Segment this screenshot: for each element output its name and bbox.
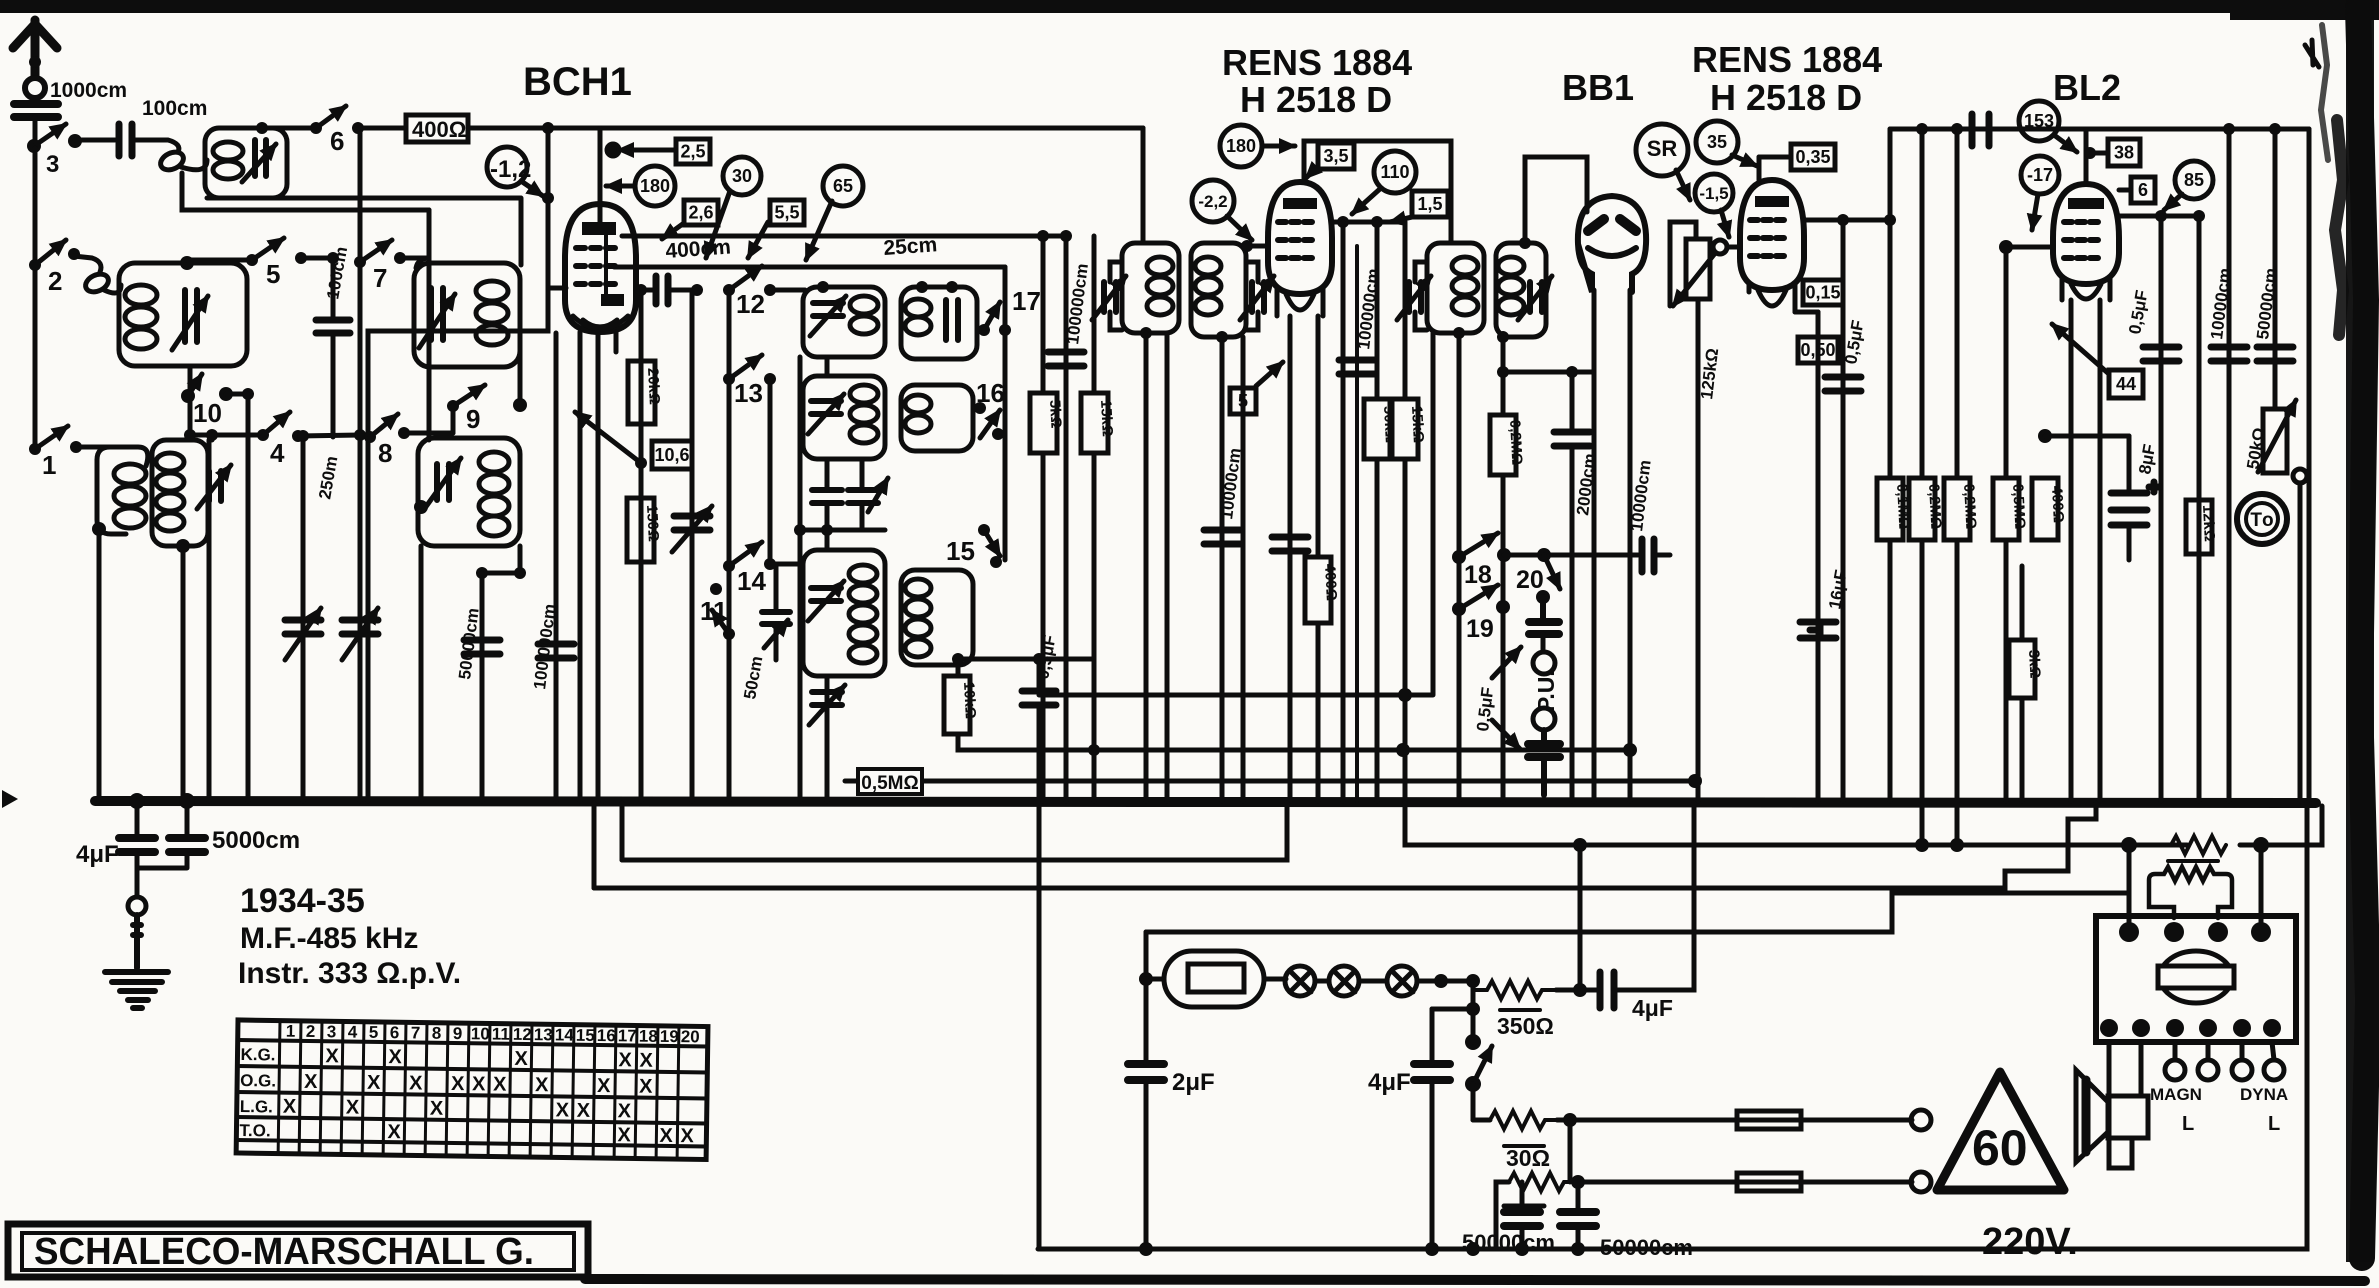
cap 50000cm c [1504, 1212, 1540, 1226]
table crosses KG [282, 1045, 695, 1148]
wire sw6 to R 400ohm [358, 126, 406, 131]
switch S16 [974, 378, 1005, 440]
trimmer C2 [185, 290, 197, 342]
coil L1 [213, 142, 243, 160]
wire trimmerB down [207, 501, 212, 801]
wire box2 bottom drop [190, 366, 212, 440]
loop resistor [2149, 867, 2232, 918]
wire pot 50k terminal down [2298, 483, 2303, 801]
svg-text:50000cm: 50000cm [455, 607, 483, 681]
tube RENS1884 b anode plate [1755, 196, 1789, 207]
antenna symbol [13, 20, 57, 92]
tube RENS1884 a grids [1278, 222, 1312, 258]
wire right edge col [2307, 129, 2312, 801]
wire box2 top right [187, 258, 252, 263]
wire PU row to pot col [1654, 553, 1670, 558]
wire 400ohm to IF line [468, 126, 1143, 131]
tuning cap gang2 [342, 620, 378, 634]
svg-text:X: X [597, 1075, 611, 1097]
svg-text:50cm: 50cm [740, 655, 766, 701]
coil L2 [125, 285, 157, 305]
svg-text:180: 180 [1226, 136, 1256, 156]
wire IF2 trimmer tie [1415, 262, 1427, 330]
svg-text:85: 85 [2184, 170, 2204, 190]
resistor 50k [1364, 399, 1399, 459]
svg-text:X: X [577, 1100, 591, 1122]
twin caps M2-M3 [812, 490, 878, 503]
frame right smudge [2335, 120, 2343, 335]
node row1 x2129 [2121, 837, 2137, 853]
BB1 diode marks [1588, 219, 1636, 231]
resistor 15k col [1092, 236, 1097, 801]
svg-text:0,5MΩ: 0,5MΩ [2009, 483, 2028, 529]
wire bias down [368, 128, 566, 801]
box label 5,5 [748, 200, 804, 258]
svg-text:400Ω: 400Ω [412, 117, 466, 142]
coil box A [97, 460, 126, 534]
wire col 1338 [1341, 222, 1346, 801]
label box 0,5M on AVC wire [858, 769, 922, 794]
svg-text:BL2: BL2 [2053, 67, 2121, 108]
svg-text:400Ω: 400Ω [2048, 485, 2067, 523]
node y129 a [1916, 123, 1928, 135]
osc box M2 [803, 376, 885, 459]
resistor fieldcoil zigzag [2171, 836, 2226, 854]
tube BCH1 inner lead [604, 235, 608, 294]
coil R2 [905, 395, 931, 413]
svg-text:6: 6 [390, 1023, 400, 1042]
coil A right side [110, 447, 148, 466]
svg-text:L: L [2182, 1113, 2194, 1135]
node box2 top [180, 256, 194, 270]
wire AVC y695 [1039, 333, 1433, 695]
capacitor 100000cm b [538, 644, 574, 658]
node sw12 l [723, 284, 735, 296]
bracket BB1 [1525, 157, 1587, 243]
node fuse1 [1563, 1113, 1577, 1127]
svg-text:15kΩ: 15kΩ [1408, 405, 1427, 443]
cap 8uF [2111, 482, 2159, 525]
svg-text:2: 2 [48, 266, 62, 296]
wire 50000cm d col [1576, 1182, 1581, 1249]
node grid RENS1 [1241, 240, 1253, 252]
svg-text:X: X [283, 1096, 297, 1118]
svg-text:12: 12 [736, 289, 765, 319]
wire col799 [798, 357, 803, 801]
table row lines [236, 1040, 707, 1147]
wire RENS2 anode row [1804, 218, 1890, 223]
switch S15 [946, 524, 1002, 568]
svg-text:T.O.: T.O. [239, 1121, 270, 1140]
coil box B [152, 440, 208, 546]
table header numbers [286, 1022, 700, 1047]
wire IF1 trimmerL col [1165, 333, 1170, 801]
svg-text:0,5μF: 0,5μF [1473, 686, 1497, 732]
wire PSU left col [1144, 932, 1149, 979]
box label 3,5 [1306, 143, 1354, 178]
node BL2 anode [2155, 210, 2167, 222]
wire trimmerB top [207, 440, 212, 471]
switch S9 [447, 385, 527, 434]
capacitor 100cm [119, 124, 132, 156]
cap 50000cm d [1560, 1212, 1596, 1226]
IF1 left trimmer [1104, 282, 1116, 312]
wire IF2-R bottom to bus [1501, 337, 1506, 801]
tube BCH1 envelope [565, 204, 636, 332]
svg-text:3: 3 [327, 1022, 337, 1041]
box label 0,35 [1759, 144, 1835, 170]
wire y530 [800, 528, 885, 533]
node IF1 bottoms [1140, 327, 1152, 339]
wire 350 tap drop [1578, 845, 1583, 990]
svg-text:60: 60 [1972, 1120, 2028, 1176]
svg-text:15kΩ: 15kΩ [1097, 399, 1116, 437]
IF2 right coil [1498, 257, 1524, 275]
svg-text:Tο: Tο [2250, 510, 2273, 531]
svg-text:400cm: 400cm [665, 235, 732, 263]
arrow pu cap b [1492, 720, 1520, 749]
row wire y435 [190, 433, 453, 436]
node return c [1571, 1242, 1585, 1256]
wire col 15k b [1403, 222, 1408, 801]
wire anode row y230 [622, 234, 1066, 239]
cap 0,5uF d [2143, 347, 2179, 361]
svg-text:5: 5 [1238, 391, 1248, 411]
osc box R2 [901, 385, 973, 451]
wire col 0,1M [1888, 129, 1893, 801]
speaker cone [2076, 1070, 2108, 1162]
wire x553 down [554, 333, 559, 801]
capacitor 100cm series [316, 258, 350, 437]
IF2 right trimmer [1530, 282, 1542, 312]
circle label -17 [2021, 156, 2059, 230]
table header col line [278, 1021, 280, 1154]
resistor 10k [944, 676, 979, 734]
node anode b [1060, 230, 1072, 242]
node fuse1 drop [1568, 1120, 1573, 1182]
svg-text:3: 3 [46, 151, 59, 178]
node bd1 [476, 567, 488, 579]
node IF2 top right [1519, 237, 1531, 249]
svg-text:X: X [388, 1046, 402, 1068]
wire 8uF row [2045, 434, 2129, 439]
box label 44 [2052, 324, 2143, 398]
IF1 right box [1191, 243, 1246, 337]
cap 4uF c [1414, 1064, 1450, 1080]
circle label -1,2 [487, 147, 543, 196]
resistor 3k col [2020, 566, 2025, 801]
cap 100000cm b [1339, 360, 1375, 374]
osc box R1 [901, 287, 977, 359]
node sw-4uF [1466, 1002, 1480, 1016]
node r435 a [184, 429, 196, 441]
wire 0,5uF col crossing bus [1037, 659, 1042, 1249]
svg-text:MAGN: MAGN [2150, 1085, 2202, 1104]
svg-text:X: X [430, 1098, 444, 1120]
tube RENS1884 a anode plate [1283, 198, 1317, 209]
wire gang1 col [301, 436, 306, 801]
circle label -1,5 [1695, 174, 1733, 237]
box label 38 [2090, 139, 2140, 166]
node y372 a [1497, 366, 1509, 378]
svg-text:O.G.: O.G. [240, 1071, 276, 1090]
resistor 0,2M a [1909, 478, 1944, 540]
svg-text:X: X [617, 1124, 631, 1146]
resistor 400ohm [406, 115, 468, 142]
node r435 c [354, 429, 366, 441]
svg-text:100cm: 100cm [323, 245, 351, 300]
wire tube to cap [636, 288, 697, 293]
switch S6 [316, 106, 346, 128]
switch S1 [29, 426, 82, 480]
switch S11 [700, 583, 735, 640]
wire AVC y750 [1094, 748, 1630, 753]
node row1 a [1915, 838, 1929, 852]
wire sw9 node down [451, 406, 456, 433]
svg-text:10: 10 [193, 398, 222, 428]
coil M2 [850, 385, 878, 403]
wire IF2-L bottom to bus [1457, 333, 1462, 801]
box label 10,6 [652, 441, 692, 469]
capacitor PU b [1528, 730, 1560, 795]
resistor 400ohm b [1305, 557, 1340, 623]
svg-text:4: 4 [270, 438, 285, 468]
cap 0,5uF osc [1022, 691, 1056, 705]
node 2uF bottom [1139, 1242, 1153, 1256]
cap 50000cm b [2257, 347, 2293, 361]
svg-text:15: 15 [946, 536, 975, 566]
svg-text:-17: -17 [2027, 165, 2053, 185]
node row1 b [1950, 838, 1964, 852]
node col 10000cm d [2223, 123, 2235, 135]
heater drop b [620, 803, 625, 860]
svg-text:X: X [556, 1099, 570, 1121]
node y530 a [794, 524, 806, 536]
resistor 3k [2009, 640, 2043, 698]
svg-text:3kΩ: 3kΩ [2025, 649, 2043, 679]
circle label 85 [2164, 161, 2213, 210]
wire PU row y555 [1504, 553, 1638, 558]
svg-text:X: X [514, 1048, 528, 1070]
transformer box [2096, 916, 2296, 1042]
tube RENS1884 b skirt [1749, 284, 1795, 312]
wire 2000cm col [1570, 372, 1575, 801]
svg-text:18: 18 [639, 1027, 658, 1046]
circle label 110 [1352, 151, 1416, 214]
frame right smudge2 [2321, 25, 2328, 160]
svg-text:5: 5 [266, 259, 280, 289]
svg-text:X: X [451, 1073, 465, 1095]
cap PU series on y555 [1642, 539, 1654, 572]
tube BL2 anode plate [2068, 198, 2104, 209]
IF1 right coil [1195, 257, 1221, 275]
small cap x776 [762, 612, 790, 624]
svg-text:9: 9 [466, 404, 480, 434]
resistor 350ohm zigzag [1473, 981, 1556, 999]
svg-text:10,6: 10,6 [654, 445, 689, 465]
svg-text:X: X [409, 1072, 423, 1094]
box label 0,50 [1798, 337, 1838, 363]
svg-text:X: X [618, 1100, 632, 1122]
wire IF1 right trimmer tie [1246, 262, 1258, 330]
svg-text:4: 4 [348, 1023, 358, 1042]
svg-text:0,2MΩ: 0,2MΩ [1925, 483, 1944, 529]
svg-text:X: X [493, 1074, 507, 1096]
svg-text:1934-35: 1934-35 [240, 882, 365, 920]
node sw12 r [764, 284, 776, 296]
wire sw1 to coilA [76, 447, 110, 460]
cap 10000cm d [2211, 347, 2247, 361]
tuning cap gang1 [285, 620, 321, 634]
node y659 [952, 653, 964, 665]
wire IF1-R bottom col [1220, 337, 1225, 801]
triangle 60 [1937, 1072, 2064, 1190]
trimmer M3 [811, 588, 841, 601]
svg-text:X: X [659, 1125, 673, 1147]
wire curl2 to box2 [104, 285, 121, 293]
antenna terminal [25, 78, 45, 98]
wire sw14 r to col799 [770, 562, 800, 567]
svg-text:12kΩ: 12kΩ [2199, 504, 2218, 542]
wire col 1357 cap [1355, 246, 1359, 801]
svg-text:16: 16 [976, 378, 1005, 408]
svg-text:30Ω: 30Ω [1506, 1145, 1550, 1171]
wire 350 row [1473, 981, 1600, 990]
transformer bottom pins [2100, 1019, 2118, 1037]
node osc a [691, 284, 703, 296]
cap 0,5uF c [1825, 377, 1861, 391]
wire fuse1 row [1473, 1118, 1737, 1123]
tube BCH1 anode plate [582, 222, 616, 235]
tube BB1 envelope [1578, 196, 1646, 292]
svg-text:8: 8 [378, 438, 392, 468]
capacitor 5000cm gnd [169, 838, 205, 852]
capacitor PU a [1529, 597, 1559, 634]
switch S5 [252, 238, 284, 260]
wire 4uF c top [1432, 1007, 1473, 1012]
wire BL2 grid row [2006, 245, 2053, 250]
node bus gnd b [179, 793, 195, 809]
svg-text:X: X [367, 1072, 381, 1094]
coil LD [479, 452, 509, 472]
osc box M3 [803, 550, 885, 676]
wire sw7 to box3 [400, 258, 430, 268]
vertical sw3-sw2-sw1 [33, 148, 38, 449]
bulb 1 [1285, 966, 1315, 996]
wire curl stub down [182, 173, 429, 210]
svg-text:1: 1 [286, 1022, 296, 1041]
resistor 15k b [1392, 399, 1427, 459]
tube RENS1884 a envelope [1268, 182, 1332, 294]
svg-text:17: 17 [1012, 286, 1041, 316]
svg-text:20kΩ: 20kΩ [644, 367, 663, 405]
wire IF1 feed down [1141, 128, 1146, 243]
cap 2000cm [1554, 432, 1590, 446]
wire 0,5uF c col [1841, 220, 1846, 801]
svg-text:150Ω: 150Ω [643, 504, 662, 542]
coil box3 [414, 263, 520, 367]
svg-text:14: 14 [555, 1025, 575, 1044]
trimmer below M3 [812, 692, 842, 705]
wire row1 [1405, 803, 2187, 845]
svg-text:16μF: 16μF [1825, 568, 1851, 610]
trimmer C3 [431, 288, 443, 340]
svg-text:13: 13 [534, 1025, 553, 1044]
svg-text:0,2MΩ: 0,2MΩ [1960, 483, 1979, 529]
svg-text:19: 19 [1466, 615, 1494, 643]
osc box M1 [803, 287, 885, 357]
svg-text:X: X [535, 1074, 549, 1096]
node 8uF row [2038, 429, 2052, 443]
wire R1 right [977, 302, 984, 330]
node lamp left [1139, 972, 1153, 986]
wire RENS1 cath cap col [1288, 316, 1293, 801]
svg-text:SCHALECO-MARSCHALL G.: SCHALECO-MARSCHALL G. [34, 1231, 534, 1273]
svg-text:DYNA: DYNA [2240, 1085, 2288, 1104]
coil L3 [476, 281, 508, 301]
IF1 right trimmer [1252, 282, 1264, 312]
wire coil1 bottom return [207, 198, 521, 265]
trimmer M2 [811, 401, 841, 414]
svg-text:0,35: 0,35 [1795, 147, 1830, 167]
resistor 0,5M b [1993, 478, 2028, 540]
resistor heater zigzag [1490, 1111, 1557, 1129]
switch S20 [1516, 555, 1560, 604]
wire x692 col [690, 290, 695, 801]
frame top bar [0, 0, 2290, 13]
svg-text:BCH1: BCH1 [523, 60, 632, 104]
resistor 5k col [1041, 236, 1046, 801]
cap 100000cm col [1064, 236, 1069, 801]
wire IF1-R trimmer col [1241, 337, 1246, 801]
wire col 10000cm d [2227, 129, 2232, 801]
svg-text:44: 44 [2116, 374, 2136, 394]
circle label 180 [606, 166, 675, 206]
node y129 b [1951, 123, 1963, 135]
node sw7 right [394, 252, 406, 264]
frame top right corner [2230, 0, 2379, 20]
node 350 bottom [1573, 983, 1587, 997]
resistor 400ohm c on col2045 [2032, 478, 2067, 540]
bulb 3 [1359, 966, 1417, 996]
cathode column top [639, 289, 644, 801]
wire col 0,5uF d [2159, 216, 2164, 801]
svg-text:4μF: 4μF [1632, 995, 1673, 1021]
speaker wires [2109, 1042, 2141, 1168]
wire coilA to bus [97, 529, 102, 801]
capacitor 1000cm [14, 104, 58, 117]
svg-text:7: 7 [373, 263, 387, 293]
wire IF1 trimmer tie [1110, 262, 1122, 330]
svg-text:8: 8 [432, 1024, 442, 1043]
node BL2 grid [1999, 240, 2013, 254]
wire antenna down [33, 117, 38, 144]
node 30ohm r [1571, 1175, 1585, 1189]
svg-text:14: 14 [737, 566, 766, 596]
svg-text:35: 35 [1707, 132, 1727, 152]
wire RENS1 400ohm col [1316, 316, 1321, 801]
node bias [542, 192, 554, 204]
node box1 top [256, 122, 268, 134]
wire switch col [1471, 981, 1476, 1120]
svg-text:2,5: 2,5 [680, 142, 705, 162]
node r435 b [206, 429, 218, 441]
wire 4uF b to riser [1614, 803, 1694, 990]
cap 16uF [1800, 622, 1836, 638]
svg-text:153: 153 [2024, 111, 2054, 131]
main chassis bus [95, 801, 2316, 803]
transformer core symbol [2158, 951, 2234, 1003]
